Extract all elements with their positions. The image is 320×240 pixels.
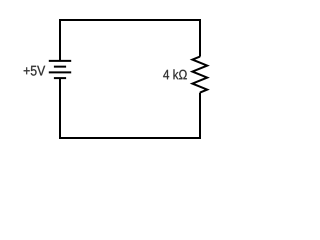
label +5V (battery value) <box>24 66 46 76</box>
label 4 kΩ (resistor value) <box>163 69 187 79</box>
wire: resistor bottom, down right rail, across bottom rail, up to battery - terminal (net B) <box>60 78 200 138</box>
wire: battery + terminal up, across top rail, down to resistor top (net A) <box>60 20 200 61</box>
resistor R1 (4 kΩ) <box>192 57 207 93</box>
battery V1 (+5V source) <box>49 61 71 78</box>
